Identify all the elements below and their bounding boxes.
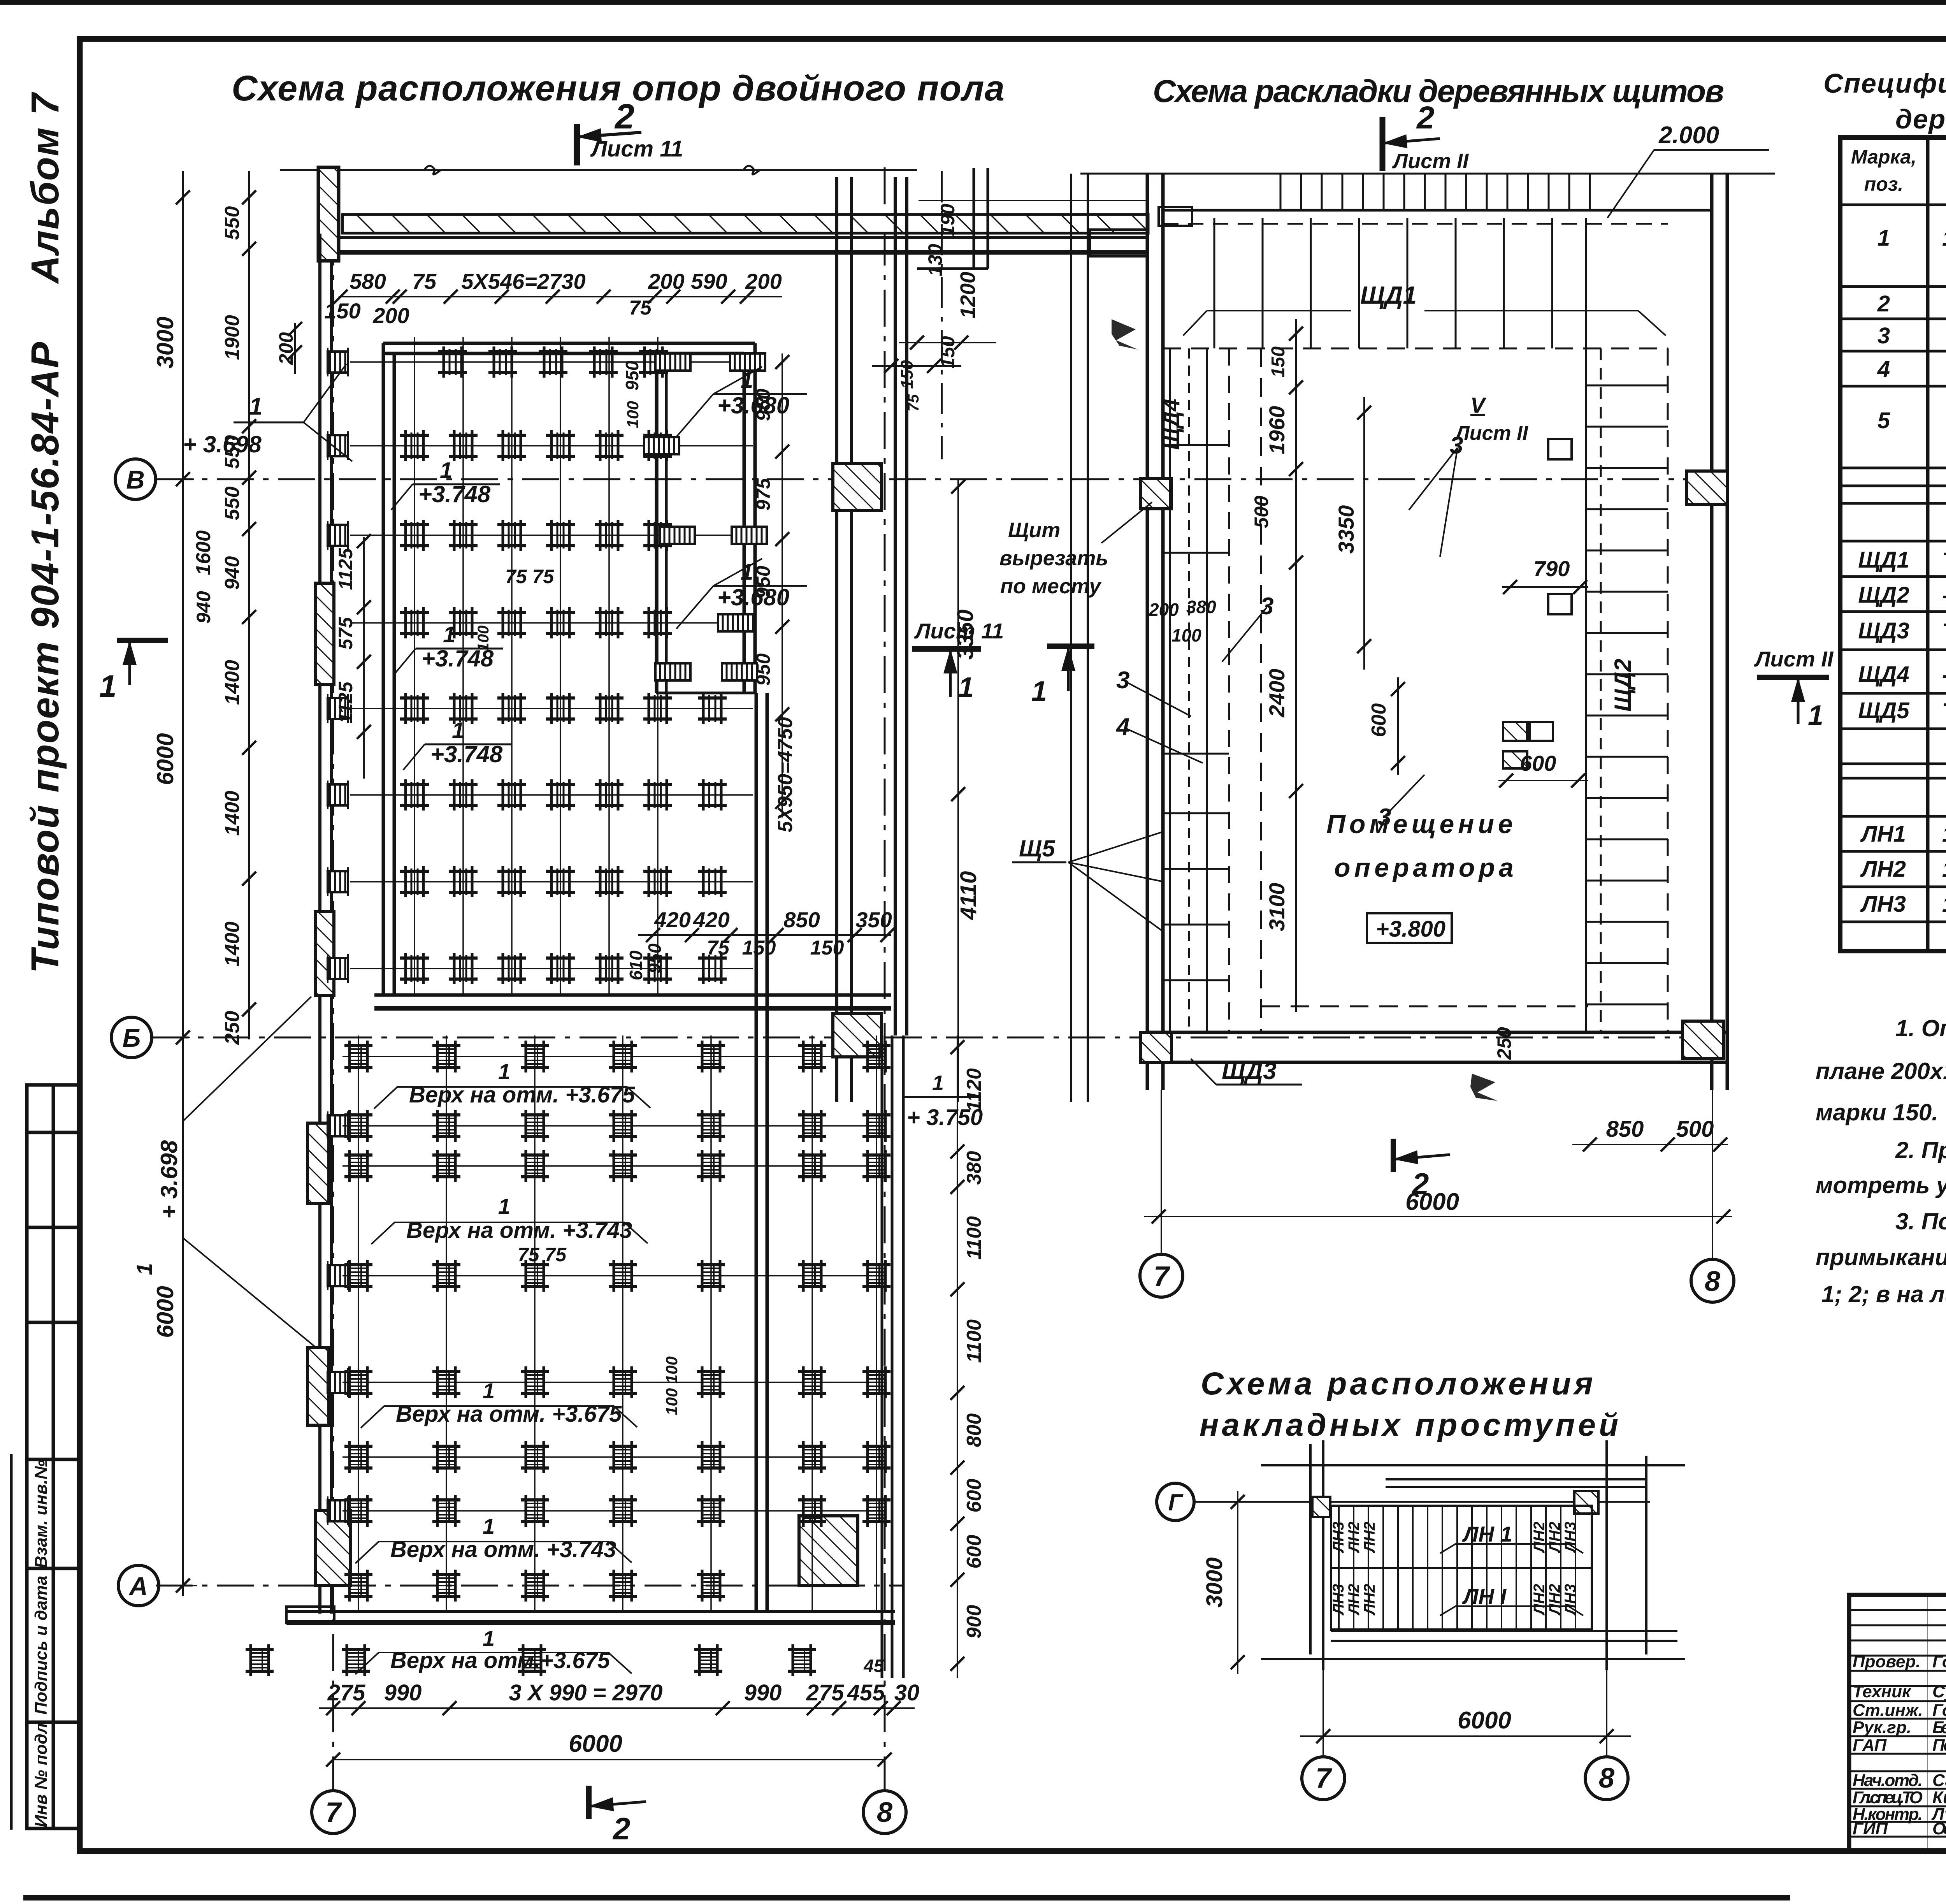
stair pier right <box>1574 1491 1598 1514</box>
svg-text:1. Опоры двойного пола (сто: 1. Опоры двойного пола (столбики с разме… <box>1895 1015 1946 1041</box>
svg-text:350: 350 <box>855 907 892 932</box>
top row supports <box>438 346 668 378</box>
svg-text:420: 420 <box>693 907 729 932</box>
svg-text:5X950=4750: 5X950=4750 <box>774 717 797 832</box>
middle plan pier 3 <box>1140 1032 1171 1062</box>
svg-text:Лист 11: Лист 11 <box>914 619 1004 643</box>
svg-text:4: 4 <box>1877 357 1890 382</box>
svg-text:ЛН I: ЛН I <box>1462 1584 1507 1609</box>
svg-text:150: 150 <box>1268 346 1289 378</box>
svg-text:600: 600 <box>963 1535 985 1569</box>
middle plan pier 1 <box>1140 478 1171 509</box>
svg-text:990: 990 <box>744 1680 782 1705</box>
dim chain 550..250 <box>248 171 250 1039</box>
middle plan left wall <box>1147 174 1163 1090</box>
svg-text:45: 45 <box>863 1656 884 1676</box>
middle plan pier 4 <box>1683 1021 1723 1058</box>
svg-text:6000: 6000 <box>152 1286 178 1338</box>
left wall supports <box>328 348 348 1525</box>
top construction line <box>280 169 917 171</box>
svg-text:Верх на отм.+3.675: Верх на отм.+3.675 <box>390 1648 610 1673</box>
svg-text:1: 1 <box>1808 700 1823 731</box>
svg-text:380: 380 <box>963 1151 985 1185</box>
svg-text:800: 800 <box>963 1413 985 1447</box>
svg-text:3: 3 <box>1378 804 1391 831</box>
svg-text:Рук.гр.: Рук.гр. <box>1853 1718 1911 1737</box>
svg-text:790: 790 <box>1533 556 1570 581</box>
outer wall lines left of middle plan <box>1071 174 1088 1102</box>
squiggle breaks <box>424 166 760 174</box>
svg-text:500: 500 <box>1250 496 1272 528</box>
svg-text:ЛН2: ЛН2 <box>1860 856 1906 882</box>
svg-text:Лист II: Лист II <box>1754 647 1834 671</box>
svg-text:ЛН2: ЛН2 <box>1345 1522 1363 1554</box>
axis circle 7 bottom-left-plan <box>312 1791 355 1834</box>
axis line 7 vertical <box>332 167 334 1791</box>
stair treads <box>1331 1506 1592 1630</box>
svg-text:950: 950 <box>622 360 642 390</box>
corner pier left at A <box>316 1510 350 1586</box>
axis verticals middle plan <box>1161 1090 1162 1254</box>
svg-text:ЩД3: ЩД3 <box>1858 618 1909 643</box>
svg-text:3 X 990 = 2970: 3 X 990 = 2970 <box>509 1680 662 1705</box>
right strip rungs <box>1586 385 1668 1004</box>
stair outer lines <box>1261 1440 1685 1670</box>
axis-8 wall pair B <box>895 177 907 1036</box>
svg-text:900: 900 <box>963 1605 985 1639</box>
svg-text:7: 7 <box>1315 1763 1332 1794</box>
axis-8 wall pair A <box>837 177 852 1102</box>
svg-text:1960: 1960 <box>1265 406 1289 455</box>
svg-text:850: 850 <box>1606 1116 1644 1142</box>
svg-text:ЛН2: ЛН2 <box>1361 1522 1378 1554</box>
svg-text:500: 500 <box>1676 1116 1714 1142</box>
svg-text:ЩД5: ЩД5 <box>1858 698 1909 723</box>
corner pier right at A <box>799 1516 858 1586</box>
svg-text:Саакьянц: Саакьянц <box>1932 1771 1946 1790</box>
svg-text:оператора: оператора <box>1334 853 1517 883</box>
svg-text:+3.680: +3.680 <box>717 584 789 610</box>
left strip rungs <box>1163 445 1229 980</box>
svg-text:1600: 1600 <box>192 530 215 575</box>
left wall pier 2 hatched <box>315 912 334 995</box>
svg-text:1,020 -1 8.7-1 6.000: 1,020 -1 8.7-1 6.000 <box>1942 822 1946 846</box>
svg-text:1: 1 <box>958 672 974 703</box>
svg-text:вырезать: вырезать <box>999 547 1108 570</box>
svg-text:поз.: поз. <box>1864 173 1904 195</box>
stair dim 6000 <box>1300 1735 1631 1737</box>
svg-text:Спецификация к схеме расположе: Спецификация к схеме расположения опор д… <box>1823 68 1946 98</box>
axis circle Б <box>111 1017 152 1058</box>
svg-text:75: 75 <box>905 394 922 411</box>
svg-text:1100: 1100 <box>963 1216 985 1260</box>
svg-text:Взам. инв.№: Взам. инв.№ <box>32 1460 51 1568</box>
svg-text:Гл.спец.ТО: Гл.спец.ТО <box>1853 1788 1923 1807</box>
dark smudge top-left <box>1112 319 1138 350</box>
svg-text:2: 2 <box>614 97 634 136</box>
svg-text:1.020-1 87-1 5.0.0.0-03: 1.020-1 87-1 5.0.0.0-03 <box>1942 892 1946 916</box>
upper room support grid lines <box>350 337 753 995</box>
section mark 1 left middle <box>1047 646 1094 691</box>
svg-text:1400: 1400 <box>221 660 244 705</box>
svg-text:150: 150 <box>324 299 360 323</box>
scan top edge line <box>0 0 1946 5</box>
svg-text:ЛН 1: ЛН 1 <box>1462 1522 1512 1546</box>
step rect bottom-left <box>286 1607 334 1623</box>
svg-text:7: 7 <box>325 1797 342 1828</box>
svg-text:150: 150 <box>937 336 959 369</box>
svg-text:2: 2 <box>612 1811 631 1846</box>
scan bottom edge line <box>23 1895 1790 1900</box>
right strip hatched supports <box>644 353 767 680</box>
inner strip divider <box>656 353 755 693</box>
bottom 6000 dim <box>333 1759 885 1760</box>
svg-text:1900: 1900 <box>221 315 244 360</box>
svg-text:1.020-1 8.7-1 5.0.0.0-02: 1.020-1 8.7-1 5.0.0.0-02 <box>1942 857 1946 881</box>
svg-text:Верх на отм. +3.675: Верх на отм. +3.675 <box>409 1082 635 1108</box>
svg-text:марки 150.: марки 150. <box>1816 1099 1938 1125</box>
svg-text:850: 850 <box>783 907 820 932</box>
svg-text:ГАП: ГАП <box>1853 1736 1887 1755</box>
svg-text:1: 1 <box>1031 676 1047 707</box>
svg-text:6000: 6000 <box>569 1730 622 1757</box>
svg-text:ЛН2: ЛН2 <box>1345 1584 1363 1616</box>
svg-text:V: V <box>1470 393 1487 417</box>
svg-text:100 100: 100 100 <box>662 1356 681 1415</box>
pier on axis-8 wall at Б <box>833 1013 882 1057</box>
svg-text:Суман: Суман <box>1932 1682 1946 1701</box>
svg-text:В: В <box>126 465 145 494</box>
lower right dim chain <box>957 1036 958 1678</box>
svg-text:8: 8 <box>877 1797 892 1828</box>
svg-text:1: 1 <box>498 1059 510 1084</box>
svg-text:1: 1 <box>443 622 455 647</box>
svg-text:130: 130 <box>924 244 946 276</box>
thin line to middle plan <box>919 200 1148 201</box>
svg-text:75 75: 75 75 <box>505 566 554 587</box>
svg-text:ТП 904-1- -КЖИ-: ТП 904-1- -КЖИ- <box>1942 548 1946 572</box>
svg-text:200: 200 <box>648 269 684 294</box>
svg-text:940: 940 <box>193 591 214 624</box>
svg-text:1; 2; в на листе 11).: 1; 2; в на листе 11). <box>1821 1281 1946 1307</box>
mid dim chain <box>1295 319 1297 1012</box>
ЩД1 strip dividers <box>1214 218 1586 348</box>
svg-text:деревянных щитов и накладных п: деревянных щитов и накладных проступей. <box>1895 104 1946 134</box>
svg-text:5: 5 <box>1878 408 1890 433</box>
stair axis lines down <box>1323 1670 1324 1756</box>
svg-text:455: 455 <box>847 1680 885 1705</box>
svg-text:610: 610 <box>626 950 646 980</box>
pier on axis-8 wall at B <box>833 463 882 511</box>
svg-text:100: 100 <box>623 401 642 428</box>
middle plan toothed band <box>1163 174 1712 210</box>
svg-text:1: 1 <box>249 393 262 420</box>
svg-text:+ 3.750: + 3.750 <box>907 1105 983 1130</box>
svg-text:Горская: Горская <box>1932 1701 1946 1720</box>
svg-text:940: 940 <box>221 556 244 590</box>
T-column top-left hatched <box>318 167 339 261</box>
svg-text:мотреть установку закладных: мотреть установку закладных элементов по… <box>1816 1172 1946 1198</box>
svg-text:2: 2 <box>1877 291 1890 316</box>
svg-text:30: 30 <box>894 1680 920 1705</box>
svg-text:6000: 6000 <box>1458 1707 1511 1734</box>
svg-text:Верх на отм. +3.675: Верх на отм. +3.675 <box>396 1401 622 1427</box>
stair axis Г <box>1157 1483 1194 1521</box>
svg-text:590: 590 <box>691 269 727 294</box>
axis circle 8 stair <box>1585 1757 1628 1800</box>
left strip lines <box>1170 348 1229 1032</box>
svg-text:Типовой проект 904-1-56.84-А: Типовой проект 904-1-56.84-АР Альбом 7 <box>23 92 67 973</box>
svg-text:2400: 2400 <box>1265 669 1289 718</box>
svg-text:75 75: 75 75 <box>518 1244 567 1266</box>
axis circle 7 middle <box>1140 1254 1183 1297</box>
svg-text:1: 1 <box>483 1514 495 1538</box>
chain 3350/4110 right <box>957 479 959 1102</box>
svg-text:Г: Г <box>1168 1489 1184 1515</box>
svg-text:7: 7 <box>1154 1261 1170 1292</box>
axis-8 wall below Б <box>882 1036 903 1678</box>
left wall pier 1 hatched <box>315 583 334 685</box>
svg-text:Осташевский: Осташевский <box>1932 1819 1946 1838</box>
axis line B horizontal <box>156 478 1728 480</box>
svg-text:3: 3 <box>1878 323 1890 348</box>
svg-text:Помещение: Помещение <box>1326 809 1517 839</box>
section mark 2 top middle <box>1382 117 1440 171</box>
svg-text:150: 150 <box>742 937 776 959</box>
svg-text:200: 200 <box>1149 600 1179 620</box>
svg-text:1: 1 <box>483 1378 495 1403</box>
svg-text:275: 275 <box>806 1680 845 1705</box>
svg-text:ЛН2: ЛН2 <box>1531 1584 1548 1616</box>
mid dim 3350 <box>1363 397 1365 670</box>
svg-text:575: 575 <box>335 617 357 650</box>
svg-text:ЛН3: ЛН3 <box>1330 1522 1347 1554</box>
bottom dim chain <box>319 1707 915 1709</box>
svg-text:3350: 3350 <box>1334 505 1358 554</box>
svg-text:Схема раскладки деревянных щит: Схема раскладки деревянных щитов <box>1153 74 1725 109</box>
svg-text:3000: 3000 <box>1202 1557 1227 1607</box>
svg-text:2. При бетонировании опор и: 2. При бетонировании опор и стенок канал… <box>1895 1137 1946 1163</box>
svg-text:75: 75 <box>707 937 730 959</box>
ЩД1 strip dashed bottom <box>1163 348 1668 350</box>
svg-text:+3.680: +3.680 <box>717 392 789 418</box>
svg-text:ЩД1: ЩД1 <box>1858 547 1909 573</box>
svg-text:550: 550 <box>221 487 244 520</box>
bottom section mark 2 middle <box>1393 1139 1450 1172</box>
svg-text:+ 3.698: + 3.698 <box>183 431 262 457</box>
top beam hatched band <box>342 214 1148 233</box>
svg-text:Нач.отд.: Нач.отд. <box>1853 1771 1923 1790</box>
svg-text:975: 975 <box>752 478 774 511</box>
svg-text:1125: 1125 <box>335 681 357 724</box>
axis line 8 vertical <box>884 167 886 1791</box>
svg-text:3100: 3100 <box>1265 883 1289 932</box>
left wall pier 3 hatched <box>307 1123 329 1203</box>
svg-text:ЛН3: ЛН3 <box>1330 1584 1347 1616</box>
stair pier left <box>1312 1497 1330 1517</box>
svg-text:1: 1 <box>741 367 753 393</box>
svg-text:ГИП: ГИП <box>1853 1819 1888 1838</box>
svg-text:6000: 6000 <box>1405 1188 1459 1215</box>
svg-text:2.000: 2.000 <box>1658 122 1719 149</box>
axis dash line between plans <box>941 171 943 459</box>
axis circle А <box>118 1565 159 1606</box>
svg-text:150: 150 <box>897 360 917 389</box>
svg-text:1: 1 <box>741 559 753 585</box>
svg-text:Верх на отм. +3.743: Верх на отм. +3.743 <box>390 1537 616 1562</box>
svg-text:150: 150 <box>810 937 844 959</box>
svg-text:Лист II: Лист II <box>1454 422 1529 445</box>
svg-text:275: 275 <box>327 1680 366 1705</box>
svg-text:190: 190 <box>937 204 959 236</box>
svg-text:ЛН3: ЛН3 <box>1860 891 1906 917</box>
ЩД1 inner dashed line <box>1163 223 1668 225</box>
lower room supports <box>246 1041 890 1676</box>
A wall band <box>286 1612 895 1623</box>
svg-text:накладных проступей: накладных проступей <box>1200 1407 1621 1443</box>
middle plan top line <box>1080 173 1775 175</box>
svg-text:1400: 1400 <box>221 791 244 836</box>
svg-text:ЛН2: ЛН2 <box>1546 1584 1563 1616</box>
svg-text:950: 950 <box>752 653 774 686</box>
scan left edge line <box>10 1454 13 1830</box>
svg-text:Инв № подл: Инв № подл <box>32 1723 51 1827</box>
labels 3 with leaders <box>1409 448 1458 510</box>
svg-text:плане 200х150) и стенки кан: плане 200х150) и стенки канала выполнить… <box>1816 1058 1946 1084</box>
svg-text:+3.748: +3.748 <box>418 481 491 507</box>
Б wall band <box>374 995 891 1008</box>
bottom 6000 dim middle <box>1144 1216 1732 1217</box>
svg-text:3: 3 <box>1260 593 1273 620</box>
svg-text:Щит: Щит <box>1008 519 1060 542</box>
svg-text:+3.748: +3.748 <box>430 741 503 767</box>
svg-text:ЩД3: ЩД3 <box>1222 1058 1277 1085</box>
svg-text:75: 75 <box>629 297 652 319</box>
svg-text:ЩД2: ЩД2 <box>1858 582 1909 608</box>
axis circle 7 stair <box>1302 1757 1345 1800</box>
svg-text:ЛН2: ЛН2 <box>1531 1522 1548 1554</box>
axis circle В <box>115 459 156 499</box>
svg-text:ЛН2: ЛН2 <box>1361 1584 1378 1616</box>
top dim line <box>339 296 782 297</box>
svg-text:550: 550 <box>221 206 244 240</box>
svg-text:600: 600 <box>1520 751 1556 775</box>
svg-text:1200: 1200 <box>956 272 980 318</box>
svg-text:4110: 4110 <box>956 871 981 920</box>
svg-text:ТП 904-1- -КЖИ-ЩД5: ТП 904-1- -КЖИ-ЩД5 <box>1942 698 1946 723</box>
svg-text:1400: 1400 <box>221 921 244 967</box>
svg-text:ТП 904-1- -КЖИ: ТП 904-1- -КЖИ <box>1942 619 1946 643</box>
svg-text:420: 420 <box>654 907 690 932</box>
left margin table <box>27 1085 81 1828</box>
svg-text:200: 200 <box>275 332 297 365</box>
svg-text:100: 100 <box>475 626 492 652</box>
svg-text:380: 380 <box>1186 597 1216 617</box>
axis circle 8 middle <box>1691 1259 1734 1302</box>
middle plan bottom wall <box>1147 1032 1727 1062</box>
svg-text:Верх на отм. +3.743: Верх на отм. +3.743 <box>406 1218 632 1243</box>
band left small rect <box>1159 207 1192 226</box>
upper room supports <box>400 430 727 984</box>
axis line Б horizontal <box>152 1037 1728 1039</box>
middle plan right wall <box>1712 174 1727 1090</box>
svg-text:Провер.: Провер. <box>1853 1652 1920 1671</box>
lower room support grid lines <box>342 1036 880 1612</box>
svg-text:580: 580 <box>350 269 386 294</box>
svg-text:1125: 1125 <box>335 548 357 590</box>
svg-text:1: 1 <box>440 458 452 483</box>
svg-text:ЩД4: ЩД4 <box>1858 662 1909 687</box>
svg-text:250: 250 <box>221 1011 244 1045</box>
upper room outline <box>383 343 755 997</box>
svg-text:200: 200 <box>745 269 782 294</box>
svg-text:Горская: Горская <box>1932 1652 1946 1671</box>
axis line A horizontal <box>156 1585 903 1587</box>
svg-text:3: 3 <box>1116 667 1129 694</box>
svg-text:ЩД4: ЩД4 <box>1159 399 1184 450</box>
svg-text:4: 4 <box>1115 714 1129 740</box>
svg-text:- ЩД1; ЩД2: - ЩД1; ЩД2 <box>1942 583 1946 607</box>
svg-text:Кияшко: Кияшко <box>1932 1788 1946 1807</box>
bottom dims 850 500 <box>1572 1144 1728 1145</box>
svg-text:100: 100 <box>1171 625 1201 645</box>
axis circle 8 bottom-left-plan <box>863 1791 906 1834</box>
right strip lines <box>1586 348 1668 1032</box>
svg-text:1: 1 <box>483 1626 495 1651</box>
svg-text:1: 1 <box>498 1194 510 1218</box>
svg-text:+3.800: +3.800 <box>1376 916 1445 942</box>
spec table grid <box>1840 137 1946 951</box>
svg-text:Ст.инж.: Ст.инж. <box>1853 1701 1923 1720</box>
left wall double line <box>320 234 332 1614</box>
lower room right wall <box>756 693 767 1612</box>
dark smudge bottom <box>1470 1074 1498 1101</box>
svg-text:ЛН1: ЛН1 <box>1860 821 1906 847</box>
svg-text:3. Покрытие пола в помещени: 3. Покрытие пола в помещении оператора в… <box>1895 1208 1946 1234</box>
svg-text:+ 3.698: + 3.698 <box>156 1140 182 1218</box>
svg-text:75: 75 <box>412 269 437 294</box>
svg-text:Лист II: Лист II <box>1392 149 1469 173</box>
title block signatures table <box>1849 1595 1946 1851</box>
svg-text:8: 8 <box>1705 1266 1720 1297</box>
svg-text:990: 990 <box>384 1680 422 1705</box>
operator room dashed boundary <box>1260 348 1262 1032</box>
svg-text:Бескоровайный: Бескоровайный <box>1932 1718 1946 1737</box>
dim chain 3000/6000/6000 <box>182 171 184 1596</box>
top beam lower flange <box>333 237 1148 252</box>
svg-text:Б: Б <box>123 1023 141 1052</box>
svg-text:1: 1 <box>1878 225 1890 251</box>
svg-text:600: 600 <box>963 1479 985 1513</box>
svg-text:250: 250 <box>1493 1027 1515 1060</box>
svg-text:200: 200 <box>372 303 409 328</box>
svg-text:1: 1 <box>452 718 464 743</box>
stair dim 3000 <box>1237 1491 1238 1674</box>
right chain 950 etc <box>782 353 783 818</box>
svg-text:- ЩД3 ; ЩД4: - ЩД3 ; ЩД4 <box>1942 662 1946 687</box>
small element squares right-center <box>1503 439 1572 768</box>
wall jog top right <box>917 168 988 269</box>
bottom section mark 2 <box>589 1786 646 1819</box>
svg-text:600: 600 <box>1368 703 1390 737</box>
section mark 1 left <box>117 640 168 685</box>
section mark 2 top <box>577 124 641 165</box>
svg-text:Техник: Техник <box>1853 1682 1912 1701</box>
top-left jut rect <box>1090 230 1147 256</box>
svg-text:8: 8 <box>1599 1763 1614 1794</box>
svg-text:3000: 3000 <box>152 316 178 368</box>
+3.800 box <box>1367 913 1452 943</box>
